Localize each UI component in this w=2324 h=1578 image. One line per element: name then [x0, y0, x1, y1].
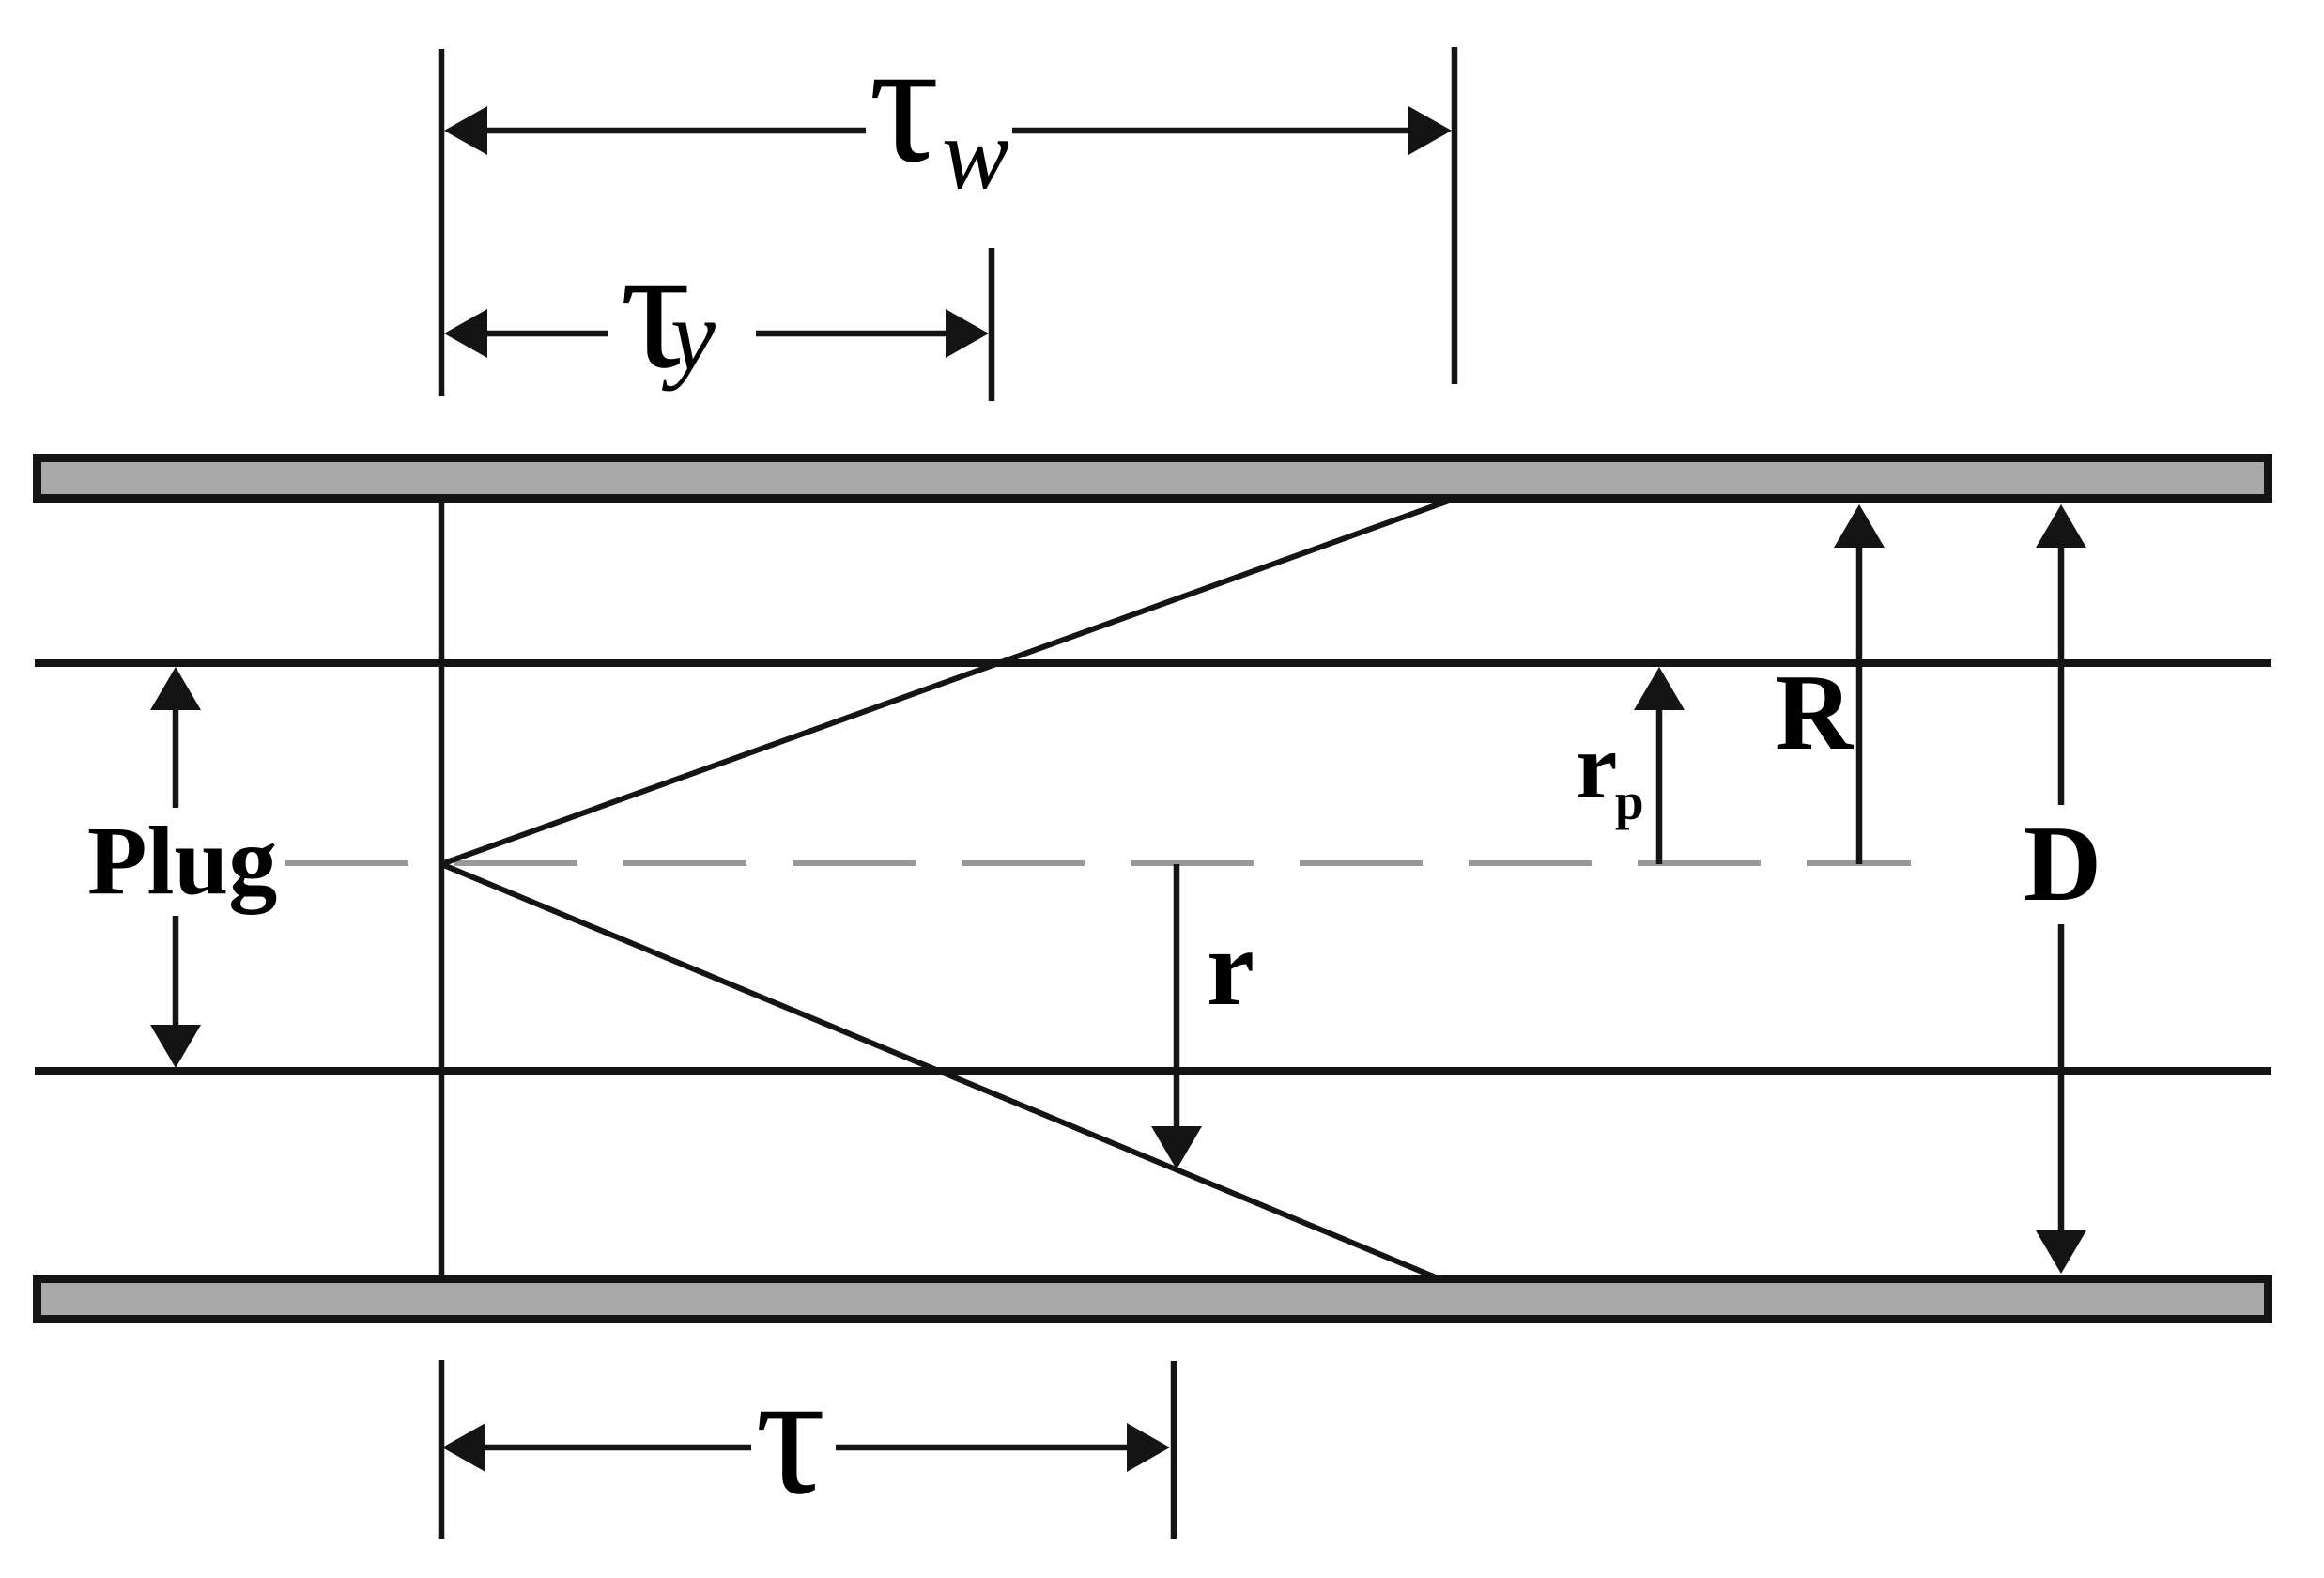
D arrow lower segment: [2058, 924, 2065, 1233]
svg-text:R: R: [1775, 653, 1855, 772]
svg-text:τ: τ: [869, 3, 940, 199]
lower shear stress diagonal: [441, 864, 1436, 1277]
upper plug boundary line: [35, 659, 2271, 667]
tau_y right arrowhead: [946, 309, 989, 358]
r arrowhead: [1151, 1126, 1202, 1169]
tau_w left arrowhead: [444, 106, 487, 155]
svg-text:Plug: Plug: [87, 807, 277, 915]
tau_w right extension tick: [1452, 47, 1458, 384]
dashed centerline: [285, 860, 1911, 866]
tau_y dimension line: [484, 331, 949, 337]
Plug dimension arrow upper arrowhead: [150, 667, 201, 710]
stress axis vertical line (bottom tick segment): [439, 1360, 445, 1539]
Plug dimension arrow upper segment: [173, 704, 179, 808]
bottom tau left arrowhead: [442, 1423, 485, 1472]
R arrowhead: [1834, 504, 1885, 548]
D arrow bottom arrowhead: [2036, 1230, 2086, 1274]
upper shear stress diagonal: [441, 501, 1449, 864]
Plug dimension arrow lower segment: [173, 916, 179, 1029]
r arrow: [1174, 864, 1180, 1130]
svg-text:r: r: [1207, 908, 1254, 1028]
lower plug boundary line: [35, 1067, 2271, 1075]
R arrow: [1856, 545, 1863, 864]
svg-text:τ: τ: [755, 1335, 826, 1531]
D arrow top arrowhead: [2036, 504, 2086, 548]
bottom tau right arrowhead: [1127, 1423, 1170, 1472]
svg-text:r: r: [1576, 714, 1617, 818]
bottom tau right extension tick: [1171, 1361, 1177, 1539]
r_p arrow: [1656, 707, 1663, 864]
stress axis vertical line (main segment between walls): [439, 503, 445, 1276]
bottom tau dimension line: [482, 1445, 1132, 1451]
tau_y left arrowhead: [444, 309, 487, 358]
svg-text:p: p: [1615, 773, 1644, 830]
Plug dimension arrow lower arrowhead: [150, 1025, 201, 1068]
bottom pipe wall: [38, 1279, 2269, 1320]
stress axis vertical line (top tick segment): [439, 49, 445, 396]
top pipe wall: [38, 458, 2269, 499]
r_p arrowhead: [1634, 667, 1685, 710]
tau_y right extension tick: [989, 248, 995, 401]
D arrow upper segment: [2058, 545, 2065, 805]
tau_w right arrowhead: [1408, 106, 1452, 155]
svg-text:w: w: [942, 99, 1009, 210]
tau_w dimension line: [484, 128, 1412, 134]
svg-text:D: D: [2024, 804, 2101, 923]
